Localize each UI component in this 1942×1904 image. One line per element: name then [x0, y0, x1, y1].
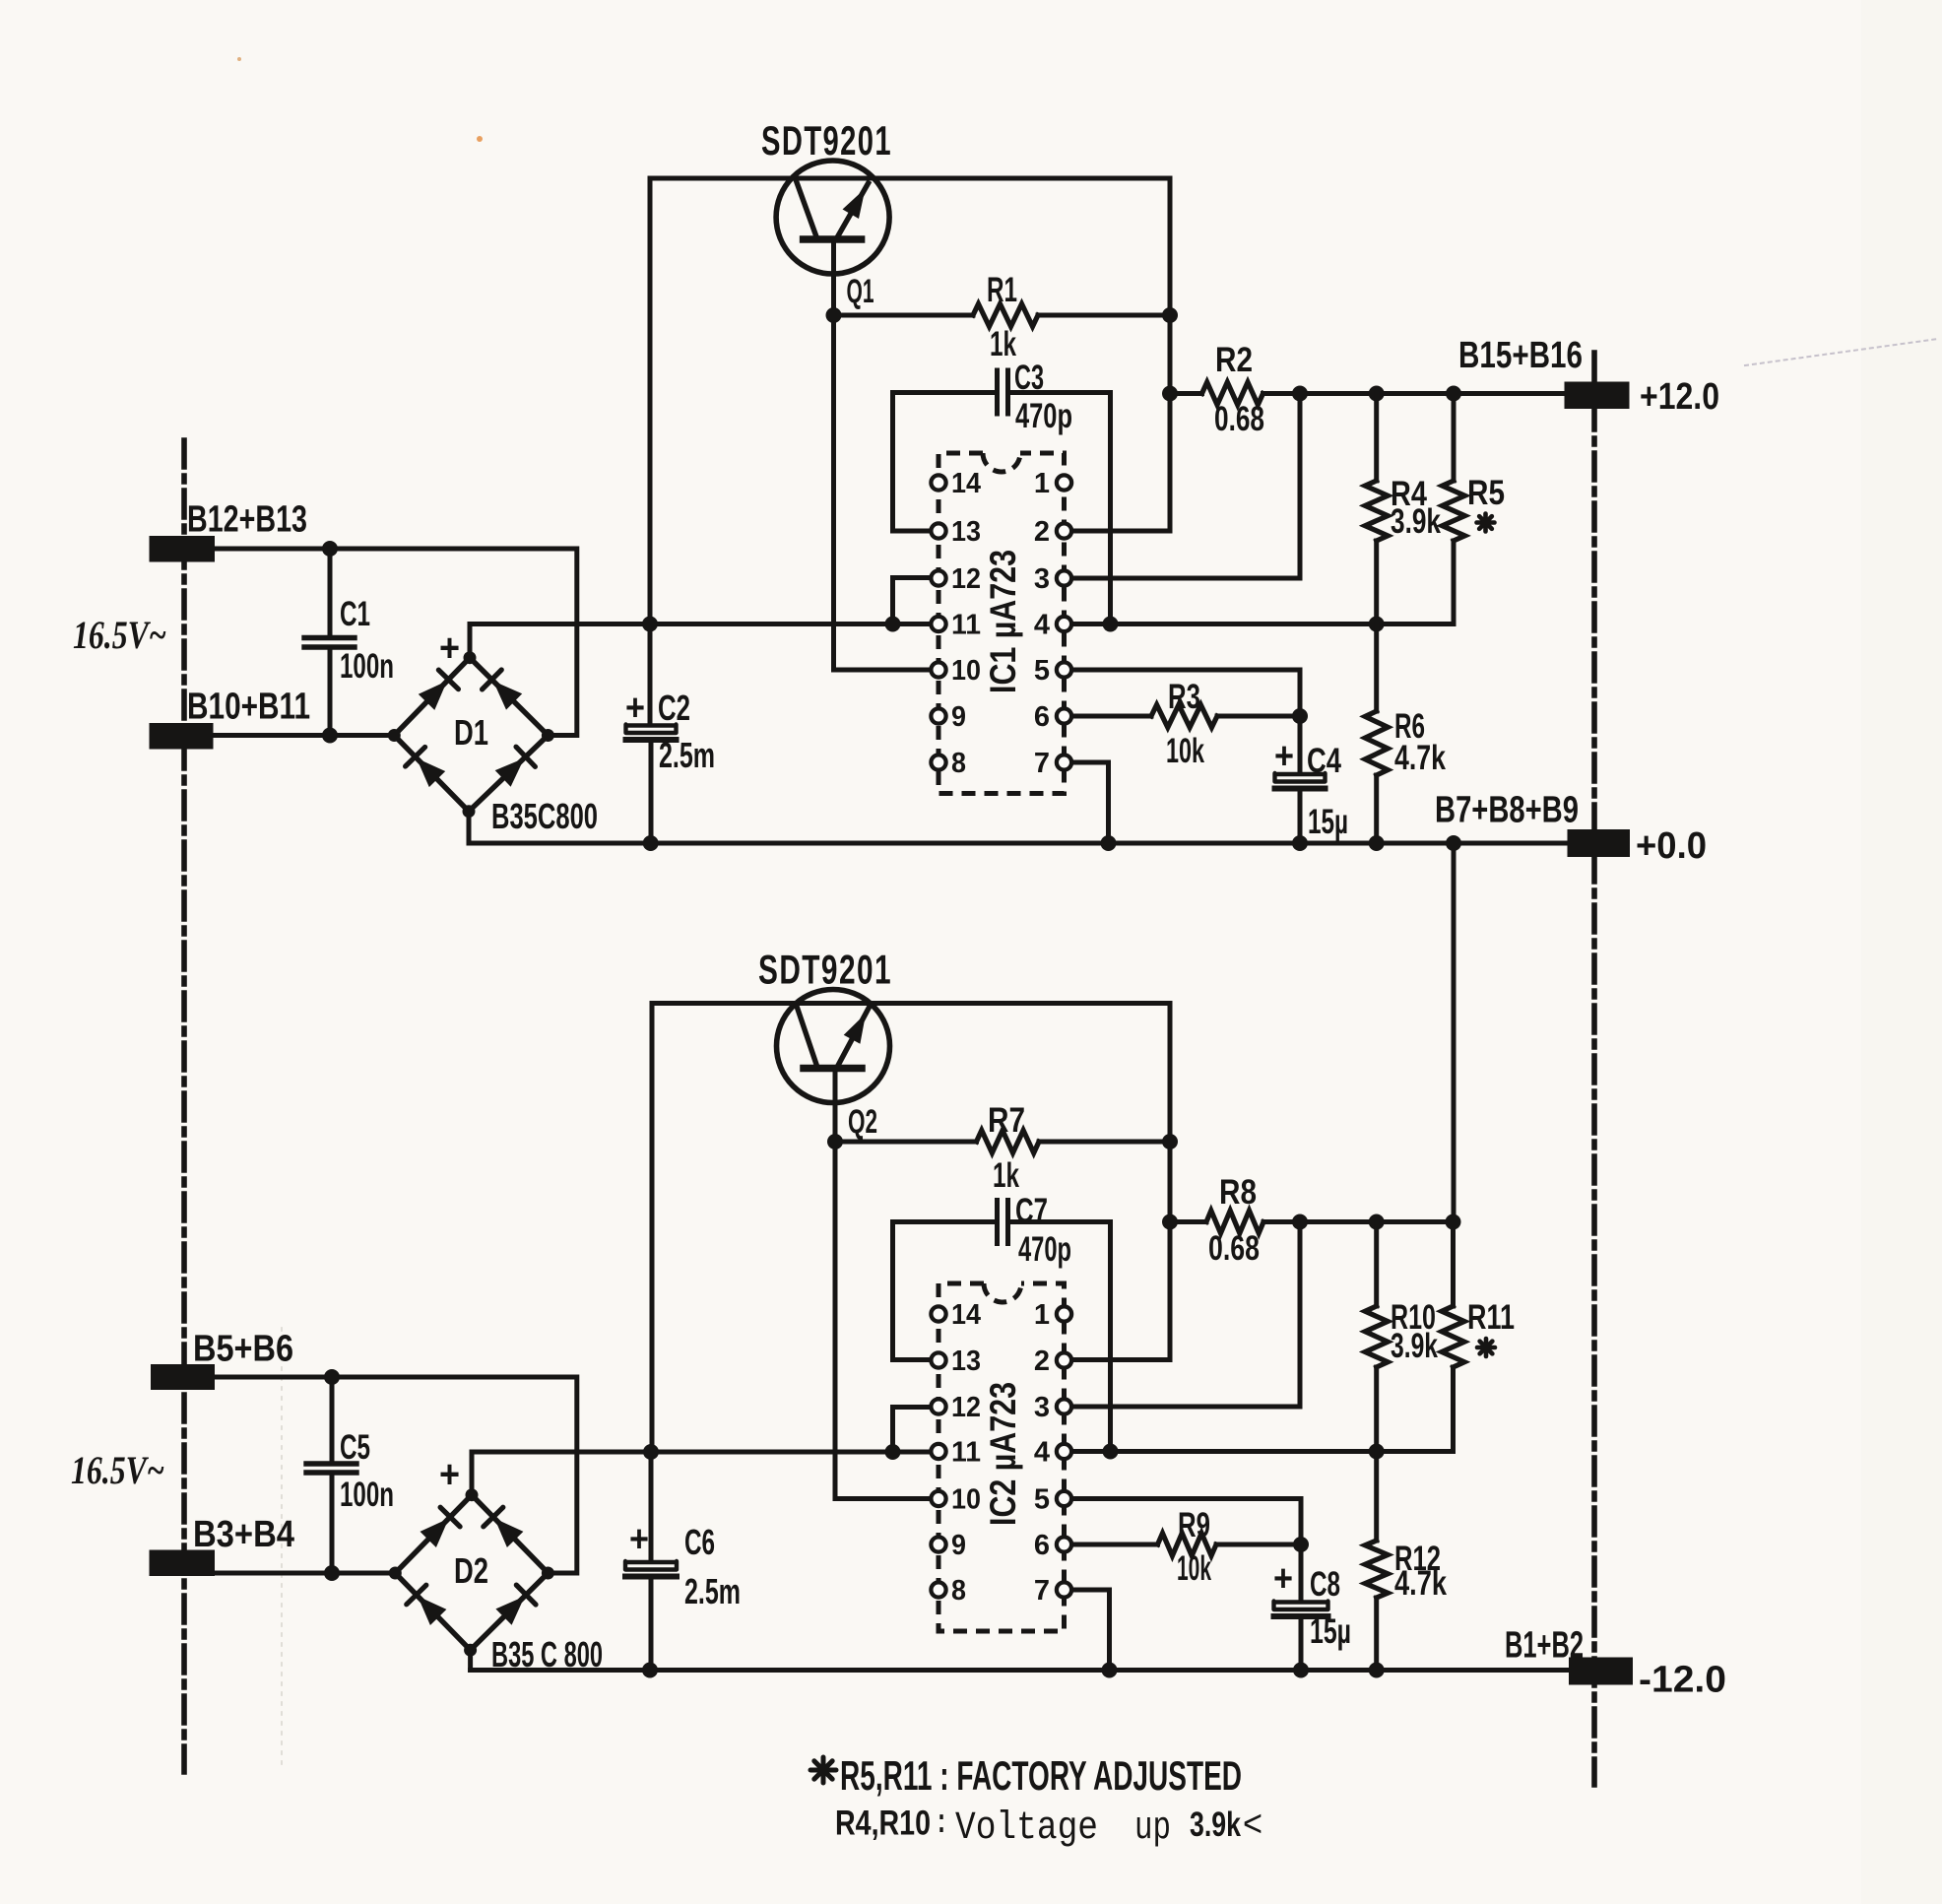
wire IC2 pin 3 to R8 node riser [1065, 1222, 1301, 1408]
resistor R6 [1365, 711, 1388, 775]
wire R12 top lead [1374, 1452, 1379, 1542]
IC1 pin 3 circle [1057, 570, 1071, 585]
svg-text:7: 7 [1034, 748, 1050, 779]
svg-text:8: 8 [951, 748, 966, 779]
IC1 pin 2 circle [1057, 523, 1071, 538]
node C6 bottom on rail [642, 1663, 658, 1678]
svg-text:+: + [625, 688, 645, 729]
svg-text:R5: R5 [1467, 474, 1505, 512]
wire 0V branch down to lower R8 rail [1452, 843, 1456, 1222]
wire C5 top lead [330, 1377, 335, 1462]
wire pin 12 stub [893, 578, 939, 624]
svg-text:D2: D2 [454, 1550, 488, 1591]
svg-text:B35C800: B35C800 [491, 796, 598, 836]
capacitor C1 plates [304, 635, 355, 640]
wire R9 left [1065, 1543, 1158, 1547]
node R6 bottom on 0V rail [1369, 835, 1385, 851]
svg-text:R5,R11 : FACTORY ADJUSTED: R5,R11 : FACTORY ADJUSTED [840, 1752, 1242, 1799]
node R11 top / 0V branch bottom [1446, 1215, 1461, 1230]
node R5 top [1446, 386, 1461, 402]
svg-text:14: 14 [951, 468, 981, 499]
capacitor C6 (electrolytic) [625, 1561, 677, 1570]
wire left vertical 2 to raw node [650, 1004, 655, 1453]
wire Q1 base down to pin 10 corner [834, 239, 931, 670]
svg-text:+: + [629, 1519, 649, 1560]
resistor R7 [977, 1131, 1040, 1153]
svg-text:<: < [1243, 1804, 1262, 1845]
wire IC1 pin 5 to C4 riser [1065, 670, 1301, 772]
wire R3 right [1217, 714, 1300, 719]
wire R2 left [1170, 391, 1202, 396]
wire left vertical from top rail to raw+ node [648, 178, 653, 624]
svg-text:R1: R1 [987, 271, 1017, 309]
IC2 pin 14 circle [931, 1306, 945, 1321]
svg-text::: : [938, 1802, 945, 1840]
capacitor C3 plates [995, 370, 1000, 414]
node R2 takeoff junction [1162, 386, 1178, 402]
wire C3 right to drop corner [1008, 393, 1111, 624]
wire R11 bottom lead [1451, 1367, 1456, 1452]
node C8 bottom on rail [1293, 1663, 1309, 1678]
svg-text:R8: R8 [1219, 1173, 1257, 1212]
svg-text:2: 2 [1034, 516, 1050, 548]
svg-text:4.7k: 4.7k [1394, 1564, 1447, 1603]
svg-text:+: + [1273, 1558, 1293, 1600]
wire right vertical 2 [1168, 1004, 1173, 1360]
svg-text:3.9k: 3.9k [1391, 1327, 1438, 1365]
node C1 top junction [322, 541, 338, 557]
IC1 pin 10 circle [931, 662, 945, 677]
svg-text:C7: C7 [1015, 1192, 1048, 1230]
svg-text:1k: 1k [993, 1156, 1019, 1195]
wire bridge D1 top vertex riser [468, 624, 473, 658]
IC2 pin 4 circle [1057, 1444, 1071, 1459]
rectifier D2 edge right-top [472, 1495, 548, 1573]
IC2 pin 11 circle [931, 1444, 945, 1459]
capacitor C7 plates [995, 1201, 1000, 1244]
wire right vertical (top rail to pin 2) [1168, 178, 1173, 531]
label R11 asterisk [1484, 1339, 1489, 1356]
svg-text:C3: C3 [1014, 359, 1044, 397]
wire C1 top lead [328, 549, 333, 636]
IC1 pin 12 circle [931, 570, 945, 585]
svg-text:12: 12 [951, 1392, 981, 1423]
IC2 pin 10 circle [931, 1491, 945, 1506]
node R9 right junction [1293, 1537, 1309, 1552]
wire R1 left [834, 313, 974, 318]
resistor R9 [1158, 1534, 1217, 1556]
node R10/R12 on pin4 wire [1369, 1444, 1385, 1460]
wire C5 bottom lead [330, 1475, 335, 1573]
svg-text:1k: 1k [990, 325, 1016, 363]
wire R6 top lead [1374, 624, 1379, 712]
svg-text:Q2: Q2 [848, 1103, 877, 1141]
diode D2 left-top [421, 1519, 449, 1548]
wire IC1 pin 3 to R2 node riser [1065, 394, 1301, 579]
svg-text:9: 9 [951, 701, 966, 733]
svg-text:up: up [1134, 1806, 1171, 1851]
right output bus dash-dot line [1591, 353, 1597, 1785]
IC2 dashed outline [939, 1283, 1065, 1631]
svg-text:R4,R10: R4,R10 [835, 1805, 931, 1843]
svg-text:1: 1 [1034, 468, 1050, 499]
wire IC2 pin 7 drop to -12 rail [1065, 1590, 1110, 1671]
wire B3+B4 to bridge left vertex [215, 1571, 395, 1576]
terminal block B10+B11 [150, 723, 214, 750]
note asterisk [821, 1757, 826, 1783]
svg-text:C6: C6 [684, 1522, 715, 1562]
capacitor C2 (electrolytic) [626, 725, 677, 734]
svg-text:10: 10 [951, 655, 981, 687]
resistor R8 [1206, 1211, 1263, 1233]
wire -12 rail [471, 1668, 1569, 1673]
svg-text:B35 C 800: B35 C 800 [491, 1634, 603, 1674]
wire C6 bottom lead [649, 1577, 654, 1671]
svg-text:SDT9201: SDT9201 [758, 947, 892, 993]
svg-text:B3+B4: B3+B4 [193, 1514, 294, 1555]
wire R10 top lead [1374, 1222, 1379, 1307]
svg-text:5: 5 [1034, 655, 1050, 687]
wire top rail 2 (Q2 collector line) [652, 1001, 1170, 1006]
resistor R11 [1442, 1306, 1464, 1367]
diode D1 bottom-right [495, 758, 525, 787]
svg-text:R7: R7 [988, 1101, 1025, 1140]
svg-text:8: 8 [951, 1575, 966, 1607]
node R1 right junction [1162, 307, 1178, 323]
wire R8 left [1170, 1219, 1206, 1224]
node C1 bottom junction [322, 728, 338, 744]
svg-text:C8: C8 [1310, 1565, 1340, 1604]
wire R4 top lead [1374, 394, 1379, 482]
rectifier D1 edge bottom-right [469, 736, 548, 812]
wire C7 left corner down to pin 13 [893, 1222, 998, 1360]
rectifier D2 edge bottom-right [471, 1573, 549, 1650]
IC1 notch [983, 453, 1020, 472]
svg-text:5: 5 [1034, 1484, 1050, 1516]
node D1 left vertex [388, 729, 401, 742]
faint scratch artifact top right [1745, 339, 1938, 365]
svg-text:C5: C5 [340, 1428, 370, 1467]
svg-text:B15+B16: B15+B16 [1458, 335, 1583, 376]
svg-text:+: + [1274, 736, 1294, 777]
terminal block B15+B16 [1565, 382, 1630, 410]
rectifier D1 edge left-top [394, 658, 470, 736]
svg-text:R11: R11 [1467, 1298, 1515, 1337]
node C4 bottom on 0V rail [1292, 835, 1308, 851]
svg-text:IC1 µA723: IC1 µA723 [983, 550, 1023, 693]
node R7 right junction [1162, 1134, 1178, 1149]
wire R8 output rail [1263, 1219, 1454, 1224]
wire B10+B11 to bridge left vertex [214, 733, 395, 738]
capacitor C8 (electrolytic) [1274, 1602, 1328, 1610]
node D1 bottom vertex [463, 805, 476, 818]
label R5 asterisk [1483, 514, 1488, 532]
wire Q2 base down to pin 10 corner [835, 1069, 930, 1499]
IC2 pin 12 circle [931, 1399, 945, 1413]
IC1 pin 1 circle [1057, 475, 1071, 490]
IC1 pin 5 circle [1057, 662, 1071, 677]
IC2 pin 9 circle [931, 1537, 945, 1551]
node pin3/pin5 riser top [1292, 386, 1308, 402]
svg-text:10k: 10k [1166, 732, 1204, 770]
terminal block B5+B6 [151, 1364, 215, 1390]
svg-text:SDT9201: SDT9201 [761, 117, 892, 164]
paper shading [1861, 0, 1942, 1904]
node D2 left vertex [389, 1567, 402, 1580]
IC2 pin 7 circle [1057, 1582, 1071, 1597]
svg-text:Q1: Q1 [847, 273, 874, 310]
wire B5+B6 to bridge right vertex [215, 1377, 577, 1573]
svg-text:B10+B11: B10+B11 [187, 687, 310, 728]
IC2 pin 6 circle [1057, 1537, 1071, 1551]
node R3 right junction [1292, 708, 1308, 724]
svg-text:4.7k: 4.7k [1394, 739, 1446, 777]
svg-text:R9: R9 [1178, 1506, 1210, 1544]
node D2 right vertex [542, 1567, 554, 1580]
IC2 pin 13 circle [931, 1352, 945, 1367]
svg-text:1: 1 [1034, 1299, 1050, 1331]
wire R1 right [1038, 313, 1170, 318]
node R8 takeoff junction [1162, 1215, 1178, 1230]
transistor Q2 [777, 990, 890, 1103]
wire R7 right [1039, 1140, 1170, 1145]
faint scan artifact line lower left [281, 1328, 283, 1765]
wire R10 bottom lead [1374, 1367, 1379, 1452]
wire IC1 pin 4 horizontal [1065, 622, 1455, 626]
wire raw+ horizontal to IC1 pin 11 [470, 622, 939, 626]
svg-text:C4: C4 [1307, 742, 1341, 780]
svg-text:2.5m: 2.5m [659, 735, 715, 775]
node C2 top junction [642, 617, 658, 632]
IC1 pin 6 circle [1057, 708, 1071, 723]
svg-text:Voltage: Voltage [955, 1806, 1098, 1851]
wire pin 12 stub 2 [893, 1408, 939, 1453]
terminal block B3+B4 [150, 1550, 216, 1577]
diode D1 bottom-left [417, 758, 445, 787]
wire R12 bottom lead [1374, 1598, 1379, 1671]
svg-text:B1+B2: B1+B2 [1505, 1625, 1584, 1667]
wire 0V rail [469, 841, 1568, 846]
wire R3 left [1065, 714, 1152, 719]
IC2 notch [984, 1283, 1021, 1302]
wire C1 bottom lead [328, 649, 333, 736]
svg-text:B7+B8+B9: B7+B8+B9 [1435, 790, 1579, 831]
wire R6 bottom lead [1374, 775, 1379, 843]
svg-text:6: 6 [1034, 1530, 1050, 1561]
svg-text:13: 13 [951, 516, 981, 548]
svg-text:13: 13 [951, 1346, 981, 1377]
left AC bus dash-dot line [181, 440, 187, 1772]
diode D2 bottom-left [418, 1597, 446, 1626]
svg-text:+: + [439, 626, 460, 670]
wire bridge D2 bottom riser [468, 1650, 473, 1670]
svg-text:3: 3 [1034, 1392, 1050, 1423]
rectifier D2 edge bottom-left [395, 1573, 470, 1650]
wire IC1 pin 7 drop to 0V rail [1065, 762, 1109, 843]
IC1 pin 7 circle [1057, 755, 1071, 769]
svg-text:4: 4 [1034, 610, 1050, 641]
terminal block B7+B8+B9 [1568, 829, 1631, 857]
IC1 pin 9 circle [931, 708, 945, 723]
wire R2 to +12 terminal [1263, 391, 1568, 396]
svg-text:D1: D1 [454, 712, 488, 753]
svg-text:16.5V~: 16.5V~ [71, 1448, 164, 1492]
node C7 drop on pin4 wire [1103, 1444, 1119, 1460]
node D2 bottom vertex [464, 1644, 477, 1657]
svg-text:B5+B6: B5+B6 [193, 1329, 293, 1370]
node C3 drop on pin4 wire [1103, 617, 1119, 632]
wire IC2 pin 2 horizontal [1065, 1357, 1171, 1362]
svg-text:B12+B13: B12+B13 [187, 499, 307, 541]
capacitor C5 plates [306, 1461, 356, 1466]
rectifier D1 edge bottom-left [394, 736, 469, 812]
node C5 bottom junction [324, 1565, 340, 1581]
svg-text:R2: R2 [1215, 341, 1253, 379]
svg-text:11: 11 [951, 1437, 981, 1469]
node C6 top junction [643, 1444, 659, 1460]
wire bridge D2 top vertex riser [470, 1452, 475, 1495]
svg-text:7: 7 [1034, 1575, 1050, 1607]
wire IC2 pin 5 to C8 riser [1065, 1499, 1302, 1601]
svg-text:10: 10 [951, 1484, 981, 1516]
diode D2 bottom-right [495, 1597, 524, 1625]
svg-text:12: 12 [951, 563, 981, 595]
wire IC1 pin 2 horizontal [1065, 529, 1171, 534]
wire C3 left corner down to pin 13 [893, 393, 998, 532]
speck [237, 57, 241, 61]
svg-text:+12.0: +12.0 [1640, 376, 1719, 418]
terminal block B12+B13 [150, 536, 216, 562]
wire raw- horizontal to IC2 pin 11 [472, 1450, 939, 1455]
node D2 top vertex [466, 1488, 479, 1501]
node R10 top [1369, 1215, 1385, 1230]
resistor R1 [973, 304, 1038, 327]
node R7 left junction [827, 1134, 843, 1149]
wire C2 top lead [648, 624, 653, 724]
node pin3/pin5 riser top 2 [1292, 1215, 1308, 1230]
IC2 pin 1 circle [1057, 1306, 1071, 1321]
IC1 dashed outline [939, 453, 1065, 794]
terminal block B1+B2 [1569, 1658, 1633, 1685]
svg-text:3.9k: 3.9k [1391, 502, 1441, 541]
IC1 pin 14 circle [931, 475, 945, 490]
wire C4 bottom lead [1298, 789, 1303, 844]
svg-text:IC2 µA723: IC2 µA723 [983, 1382, 1023, 1526]
node 0V branch to lower section [1446, 835, 1461, 851]
node C5 top junction [324, 1369, 340, 1385]
wire R5 bottom lead [1452, 541, 1456, 624]
capacitor C4 (electrolytic) [1275, 773, 1326, 782]
svg-text:4: 4 [1034, 1437, 1050, 1469]
node R12 bottom on -12 rail [1369, 1663, 1385, 1678]
IC1 pin 4 circle [1057, 617, 1071, 631]
wire R7 left [835, 1140, 977, 1145]
diode D2 right-top [494, 1519, 523, 1548]
resistor R3 [1151, 705, 1217, 728]
IC2 pin 8 circle [931, 1582, 945, 1597]
orange speck [477, 136, 483, 142]
wire C7 right to drop corner [1008, 1222, 1111, 1452]
IC2 pin 3 circle [1057, 1399, 1071, 1413]
wire R4 bottom lead [1374, 541, 1379, 624]
svg-text:100n: 100n [340, 1476, 394, 1514]
svg-text:15µ: 15µ [1310, 1612, 1351, 1651]
IC1 pin 13 circle [931, 523, 945, 538]
svg-text:100n: 100n [340, 647, 394, 686]
svg-text:-12.0: -12.0 [1639, 1660, 1726, 1701]
node D1 top vertex [464, 651, 477, 664]
node pin7 drop on rail [1101, 835, 1117, 851]
resistor R5 [1443, 481, 1465, 541]
node pin12 stub junction [885, 617, 901, 632]
wire R11 top lead [1451, 1222, 1456, 1307]
wire R5 top lead [1452, 394, 1456, 482]
diode D1 left-top [419, 681, 447, 710]
svg-text:16.5V~: 16.5V~ [73, 613, 166, 657]
wire C2 bottom lead [649, 740, 654, 843]
node D1 right vertex [542, 729, 554, 742]
IC1 pin 8 circle [931, 755, 945, 769]
node R4 top [1369, 386, 1385, 402]
IC2 pin 5 circle [1057, 1491, 1071, 1506]
svg-text:6: 6 [1034, 701, 1050, 733]
resistor R4 [1365, 481, 1388, 541]
svg-text:C2: C2 [658, 688, 690, 728]
svg-text:R3: R3 [1168, 678, 1200, 716]
svg-text:470p: 470p [1015, 397, 1072, 435]
svg-text:0.68: 0.68 [1208, 1229, 1260, 1268]
svg-text:+: + [439, 1453, 460, 1496]
IC2 pin 2 circle [1057, 1352, 1071, 1367]
svg-text:0.68: 0.68 [1214, 400, 1264, 438]
node R4/R6 on pin4 wire [1369, 617, 1385, 632]
node pin12 stub junction 2 [885, 1444, 901, 1460]
resistor R12 [1365, 1541, 1388, 1598]
svg-text:2.5m: 2.5m [684, 1571, 741, 1611]
wire C8 bottom lead [1299, 1616, 1304, 1671]
svg-text:3: 3 [1034, 563, 1050, 595]
rectifier D2 edge left-top [395, 1495, 472, 1573]
resistor R10 [1365, 1306, 1388, 1367]
svg-text:11: 11 [951, 610, 981, 641]
svg-text:+0.0: +0.0 [1636, 825, 1707, 867]
wire IC2 pin 4 horizontal [1065, 1449, 1454, 1454]
node R1 left junction on base line [826, 307, 842, 323]
svg-text:14: 14 [951, 1299, 981, 1331]
node pin7 drop on rail 2 [1102, 1663, 1118, 1678]
svg-text:2: 2 [1034, 1346, 1050, 1377]
svg-text:3.9k: 3.9k [1190, 1806, 1241, 1844]
transistor Q1 [776, 161, 889, 274]
IC1 pin 11 circle [931, 617, 945, 631]
wire C6 top lead [649, 1452, 654, 1560]
wire B12+B13 to bridge right vertex [215, 549, 577, 736]
svg-text:15µ: 15µ [1308, 803, 1348, 841]
svg-text:C1: C1 [340, 595, 370, 633]
svg-text:470p: 470p [1018, 1230, 1071, 1269]
wire bridge D1 bottom riser [467, 812, 472, 843]
wire top rail (Q1 collector line) [650, 176, 1170, 181]
svg-text:10k: 10k [1177, 1549, 1211, 1588]
resistor R2 [1202, 382, 1263, 405]
rectifier D1 edge right-top [470, 658, 548, 736]
wire R9 right [1216, 1543, 1301, 1547]
diode D1 right-top [493, 681, 522, 709]
svg-text:9: 9 [951, 1530, 966, 1561]
node C2 bottom on rail [643, 835, 659, 851]
